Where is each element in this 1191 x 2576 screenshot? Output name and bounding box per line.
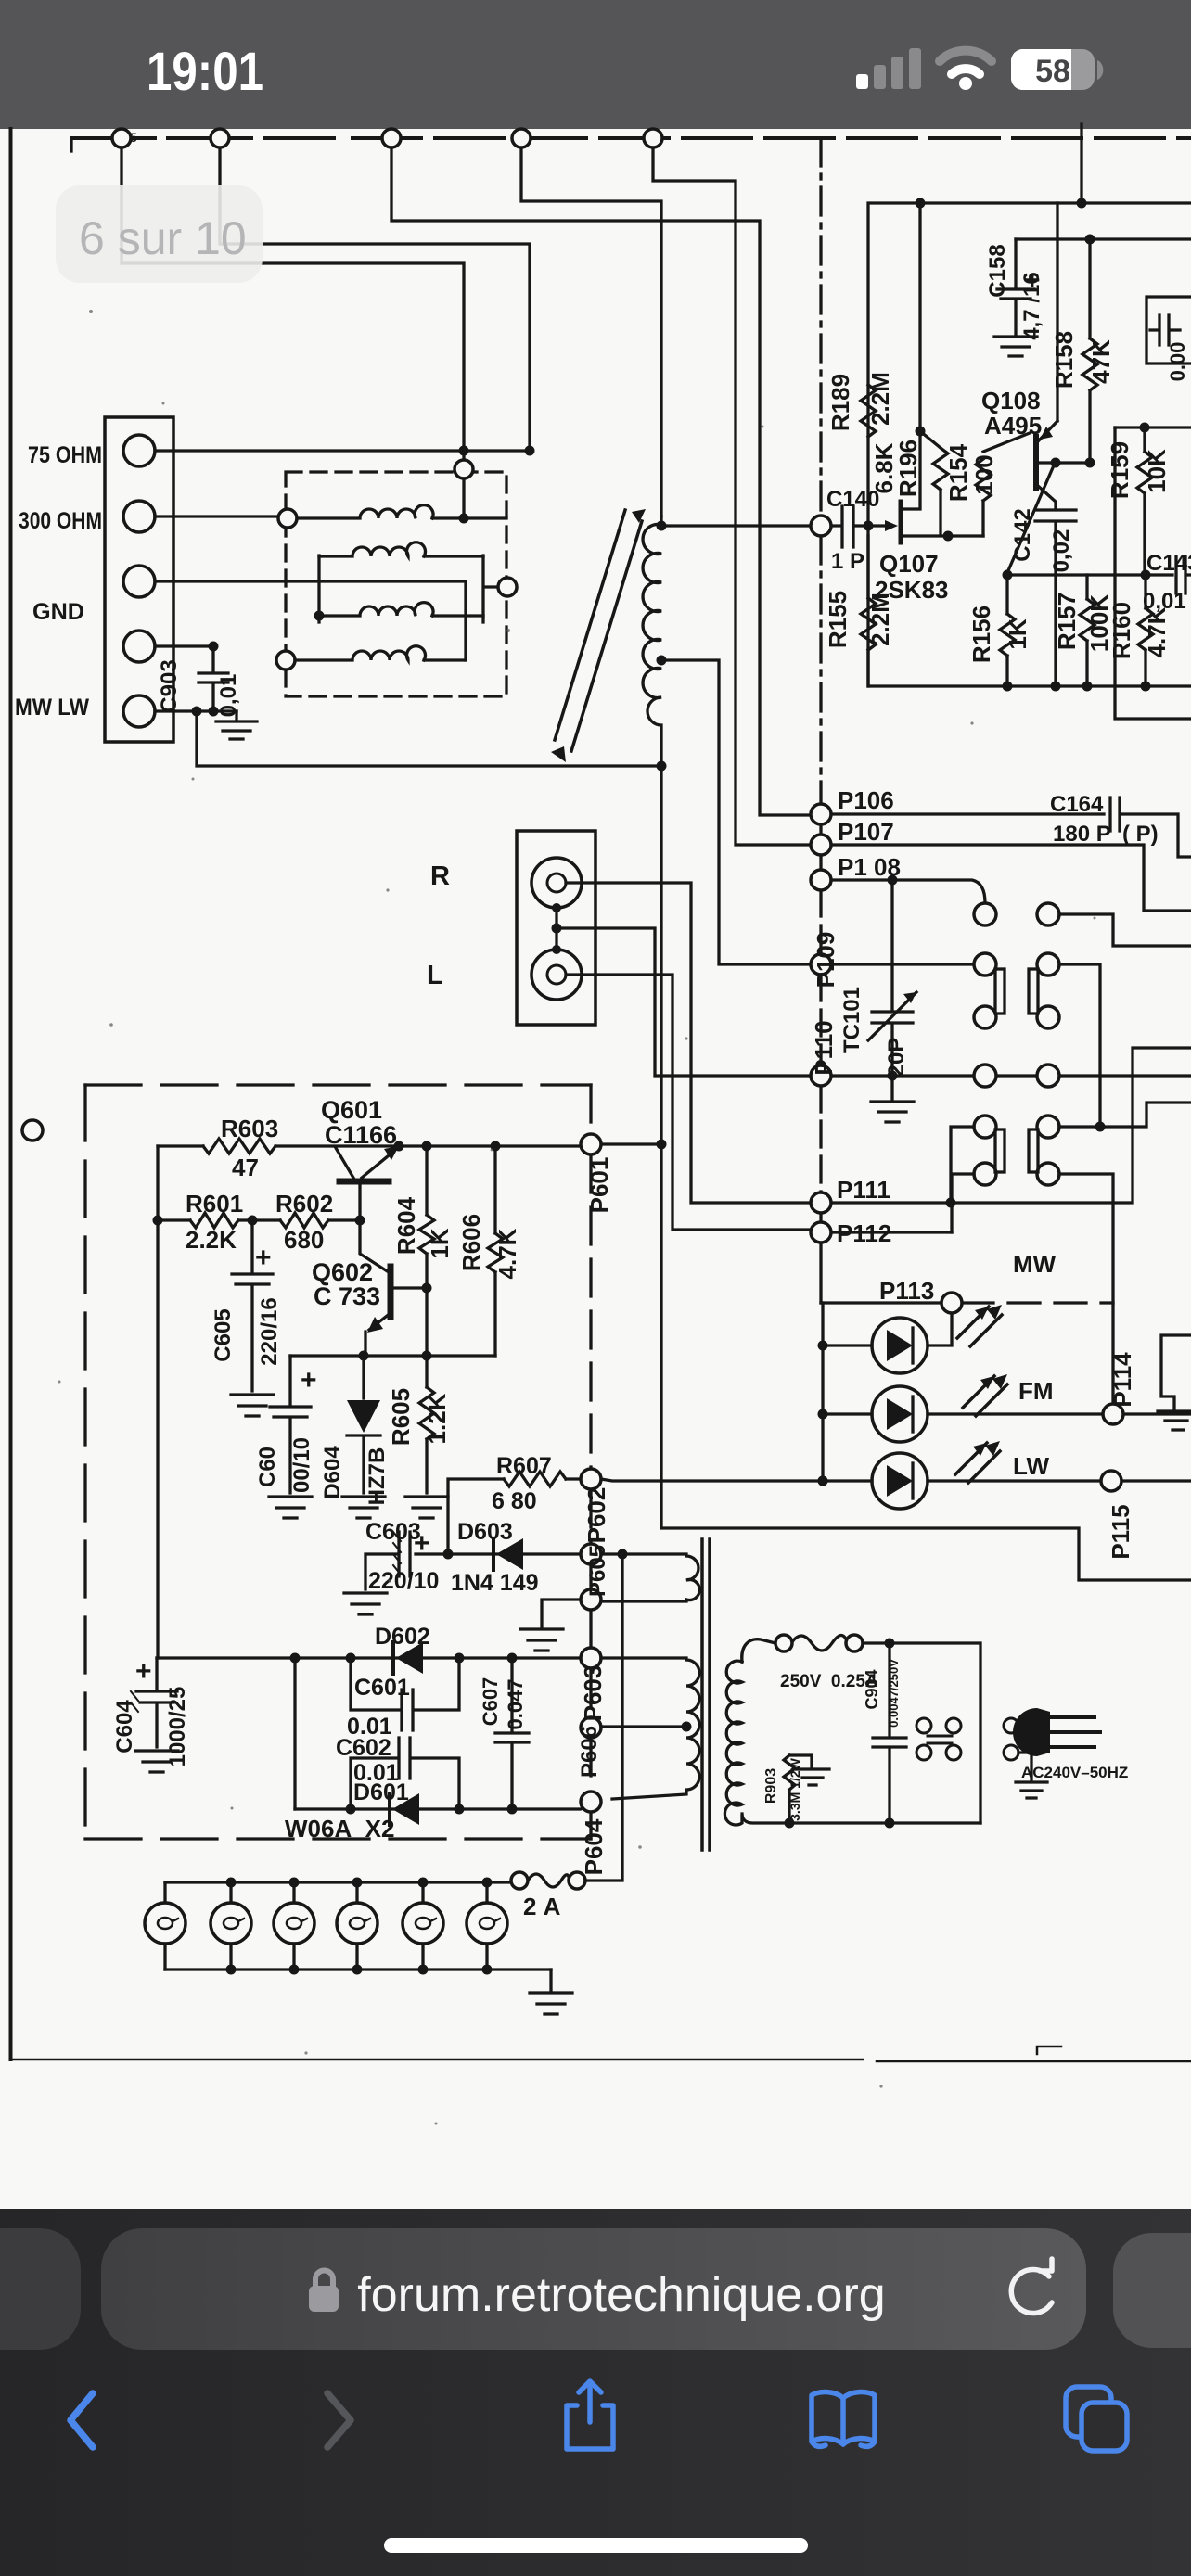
svg-text:220/16: 220/16 [257, 1297, 282, 1365]
left border connector [22, 1120, 43, 1141]
P circles on chassis [811, 804, 1123, 1491]
svg-text:R160: R160 [1108, 602, 1135, 659]
svg-text:D601: D601 [353, 1779, 409, 1805]
C603 [365, 1532, 448, 1589]
line y620 with C143 [1006, 556, 1191, 593]
coil L1 [297, 505, 506, 518]
P106 line + C164 [831, 797, 1191, 857]
svg-text:1N4 149: 1N4 149 [451, 1570, 539, 1596]
svg-text:4,7 /16: 4,7 /16 [1019, 272, 1044, 339]
svg-text:R154: R154 [944, 443, 972, 502]
R160 4.7K [1138, 575, 1153, 686]
svg-text:+: + [255, 1243, 272, 1273]
svg-text:47K: 47K [1087, 339, 1115, 384]
svg-text:P109: P109 [812, 932, 839, 988]
svg-text:+: + [414, 1528, 430, 1559]
P60x circles right edge [581, 1134, 601, 1812]
R189 2.2M [861, 385, 876, 437]
Q602 [360, 1220, 389, 1272]
coil top wire to C140 [661, 524, 812, 527]
C604 1000/25 [136, 1658, 177, 1747]
svg-text:MW: MW [1013, 1250, 1057, 1278]
svg-text:P603: P603 [579, 1665, 607, 1722]
svg-text:C60: C60 [255, 1447, 280, 1487]
variable core arrows [555, 510, 642, 751]
TC101 [872, 880, 913, 1076]
svg-text:R159: R159 [1106, 441, 1133, 499]
svg-text:C603: C603 [365, 1519, 421, 1545]
R155 2.2M [861, 536, 876, 686]
share icon [567, 2381, 613, 2449]
svg-text:R602: R602 [275, 1190, 333, 1218]
svg-text:00/10: 00/10 [289, 1437, 314, 1493]
coil tap to P109 [661, 660, 811, 964]
svg-text:C607: C607 [479, 1677, 502, 1727]
svg-text:R601: R601 [186, 1190, 243, 1218]
svg-text:R: R [430, 861, 450, 891]
C602 ladder [351, 1738, 459, 1809]
svg-text:R156: R156 [967, 606, 995, 663]
svg-text:R189: R189 [826, 374, 854, 431]
coil L3 [319, 603, 483, 616]
svg-text:1K: 1K [1004, 618, 1031, 649]
lock icon [315, 2271, 333, 2288]
left rail [156, 1146, 159, 1658]
svg-text:TC101: TC101 [839, 987, 864, 1053]
svg-text:R158: R158 [1050, 331, 1078, 389]
P107 line [831, 845, 1191, 911]
svg-text:R196: R196 [894, 440, 922, 497]
svg-text:MW LW: MW LW [15, 695, 89, 721]
svg-text:P606: P606 [577, 1726, 602, 1778]
svg-text:2.2M: 2.2M [866, 593, 894, 646]
svg-text:1K: 1K [426, 1228, 454, 1258]
svg-text:+: + [135, 1656, 152, 1687]
svg-text:1.2K: 1.2K [423, 1393, 451, 1444]
page bottom edge [10, 2060, 1191, 2061]
emission arrows MW [957, 1307, 1002, 1346]
C140 coupling cap [830, 506, 868, 547]
R154 100 [976, 433, 1030, 536]
svg-text:R903: R903 [763, 1768, 779, 1804]
svg-text:6 80: 6 80 [492, 1488, 537, 1514]
core [702, 1539, 710, 1850]
R159 10K [1137, 427, 1152, 575]
svg-text:FM: FM [1018, 1377, 1054, 1405]
bus junction circles [112, 129, 662, 147]
tick above FM box [1080, 124, 1082, 203]
svg-text:W06A X2: W06A X2 [285, 1815, 395, 1843]
svg-text:R155: R155 [824, 591, 852, 648]
C605 [232, 1220, 273, 1391]
emission arrows FM [963, 1376, 1007, 1416]
junction dots left section [192, 446, 535, 717]
svg-text:forum.retrotechnique.org: forum.retrotechnique.org [357, 2268, 885, 2322]
top bus dashed [70, 138, 72, 151]
switch lower group [974, 1116, 1059, 1185]
svg-text:220/10: 220/10 [368, 1568, 439, 1594]
R158 47K [1082, 239, 1097, 464]
svg-text:C601: C601 [354, 1675, 410, 1701]
BALUN coil box dashed [286, 472, 506, 696]
svg-text:C605: C605 [211, 1308, 236, 1361]
6 sur 10 overlay [56, 185, 263, 283]
Q601 [339, 1179, 389, 1185]
svg-text:0.047: 0.047 [504, 1678, 527, 1729]
svg-text:6 sur 10: 6 sur 10 [79, 212, 247, 264]
C606 100/10 [270, 1356, 311, 1493]
svg-text:P601: P601 [585, 1157, 613, 1214]
FM box dots [657, 198, 1151, 1150]
coil L2 [319, 542, 483, 556]
svg-text:Q601: Q601 [321, 1096, 382, 1124]
svg-text:R157: R157 [1053, 593, 1081, 650]
svg-text:P112: P112 [837, 1219, 891, 1247]
svg-text:Q108: Q108 [981, 387, 1041, 414]
svg-text:R605: R605 [387, 1388, 415, 1446]
svg-text:P111: P111 [837, 1176, 890, 1204]
svg-text:680: 680 [284, 1226, 324, 1254]
stub to balun connector [462, 451, 465, 460]
svg-text:C143: C143 [1146, 551, 1191, 576]
tabs icon [1066, 2387, 1127, 2451]
fuse 250V [791, 1635, 847, 1651]
ground near plug [1016, 1782, 1047, 1798]
inner rails [319, 555, 497, 622]
P-ground circle row [520, 1600, 581, 1651]
svg-text:P115: P115 [1107, 1504, 1134, 1559]
Q107 FET [868, 524, 885, 527]
svg-text:0,02: 0,02 [1049, 529, 1074, 573]
P109 line [831, 963, 974, 965]
svg-text:300 OHM: 300 OHM [19, 508, 102, 534]
nav icons [70, 2393, 351, 2447]
book icon [812, 2392, 875, 2447]
R601 [158, 1213, 280, 1228]
reload icon [1011, 2259, 1052, 2314]
svg-text:D602: D602 [375, 1624, 430, 1650]
svg-text:20P: 20P [884, 1038, 909, 1078]
C158 4,7/16 [997, 239, 1034, 335]
svg-text:R604: R604 [392, 1196, 420, 1255]
supply line y258 [1016, 237, 1191, 240]
R157 100K [1080, 575, 1095, 686]
STATUS BAR [0, 0, 1191, 129]
ground near C903 [216, 711, 257, 739]
line 1788 [157, 1656, 581, 1659]
FM antenna coil [643, 516, 661, 766]
svg-text:R606: R606 [457, 1214, 485, 1271]
svg-text:47: 47 [232, 1154, 259, 1181]
signal bars [856, 48, 921, 89]
R606 [488, 1146, 503, 1356]
svg-text:P602: P602 [583, 1487, 610, 1544]
R156 1K [1000, 575, 1015, 686]
TRANSFORMER secondaries [601, 1554, 699, 1601]
svg-text:1000/25: 1000/25 [165, 1687, 190, 1767]
svg-text:2.2K: 2.2K [186, 1226, 237, 1254]
P108 line to switch [831, 880, 985, 903]
coil L4 [295, 646, 466, 660]
svg-text:P605: P605 [585, 1545, 610, 1597]
svg-text:C904: C904 [863, 1669, 881, 1709]
BOTTOM TOOLBAR [0, 2209, 1191, 2576]
svg-text:+: + [301, 1365, 317, 1396]
POWER SUPPLY dashed box [85, 1083, 591, 1086]
small box top right [1146, 297, 1191, 363]
wifi [940, 51, 992, 90]
C601 ladder [351, 1658, 459, 1730]
P111 line [831, 1048, 1191, 1203]
C607 [495, 1658, 529, 1809]
svg-text:C602: C602 [336, 1735, 391, 1761]
wire B from bus circle 237 [220, 138, 530, 451]
svg-text:4.7K: 4.7K [493, 1228, 521, 1279]
terminal wires [155, 449, 530, 452]
svg-text:D603: D603 [457, 1519, 513, 1545]
svg-text:C142: C142 [1010, 508, 1035, 561]
R604 [419, 1146, 434, 1288]
svg-text:19:01: 19:01 [147, 42, 263, 102]
svg-text:( P): ( P) [1122, 822, 1159, 847]
svg-text:C158: C158 [985, 244, 1010, 297]
LED feed rail [821, 1303, 824, 1481]
power switch contacts [916, 1718, 961, 1760]
svg-text:3.3M 1/2W: 3.3M 1/2W [788, 1757, 802, 1820]
P601 stub to vertical [601, 1142, 661, 1145]
D604 zener [362, 1356, 365, 1398]
D602 [391, 1642, 395, 1674]
battery [1011, 49, 1103, 90]
svg-text:A495: A495 [984, 412, 1042, 440]
svg-text:P106: P106 [838, 786, 894, 814]
svg-text:C1166: C1166 [325, 1121, 397, 1149]
svg-text:2 A: 2 A [523, 1893, 561, 1920]
wire A from bus circle 131 [122, 138, 464, 451]
svg-text:P1 08: P1 08 [838, 853, 901, 881]
FM TUNER BOX [868, 203, 1191, 686]
dots regulator [153, 1141, 501, 1361]
D601 [388, 1793, 391, 1825]
P110 line [831, 1074, 1191, 1077]
svg-text:P114: P114 [1108, 1352, 1136, 1408]
2A fuse [528, 1874, 569, 1887]
svg-text:P113: P113 [879, 1277, 934, 1305]
svg-text:Q107: Q107 [879, 550, 939, 578]
svg-text:HZ7B: HZ7B [365, 1447, 390, 1506]
svg-text:P107: P107 [838, 818, 894, 846]
FM LED [872, 1386, 928, 1442]
P112 line [831, 1231, 952, 1233]
svg-text:100: 100 [970, 454, 998, 494]
svg-text:P604: P604 [580, 1818, 608, 1875]
svg-text:AC240V–50HZ: AC240V–50HZ [1021, 1764, 1128, 1781]
primary bottom [742, 1814, 980, 1823]
P113 row [821, 1301, 941, 1304]
page left border [9, 129, 13, 2060]
emission arrows LW [955, 1443, 1000, 1483]
coil bottom long route [661, 766, 1191, 1580]
R903 [784, 1755, 812, 1823]
P114/P115 continuations [1122, 1414, 1191, 1481]
RCA JACKS [517, 831, 595, 1025]
svg-text:R603: R603 [221, 1115, 278, 1142]
svg-text:GND: GND [32, 599, 84, 625]
svg-text:C 733: C 733 [314, 1282, 380, 1310]
R196 6.8K [920, 431, 948, 534]
svg-text:R607: R607 [496, 1453, 552, 1479]
svg-text:1 P: 1 P [831, 549, 864, 574]
plug side contacts [1004, 1718, 1018, 1760]
R605 [419, 1288, 434, 1493]
D603 line [448, 1552, 581, 1555]
svg-text:58: 58 [1035, 54, 1070, 89]
AC plug [1013, 1708, 1050, 1756]
R602 [280, 1213, 360, 1228]
svg-text:P110: P110 [810, 1020, 838, 1075]
C142 [1035, 510, 1076, 686]
svg-text:C164: C164 [1050, 792, 1104, 817]
svg-text:L: L [427, 961, 443, 990]
primary coil [724, 1661, 742, 1825]
LW supply from P602 [601, 1479, 823, 1481]
balun connector circles [276, 460, 517, 670]
left rail x318 [293, 1658, 296, 1809]
svg-text:180 P: 180 P [1053, 822, 1111, 847]
wire from bus circle 562 to FM coil top [521, 138, 661, 516]
dots power [785, 1639, 895, 1829]
svg-text:C903: C903 [157, 659, 182, 712]
svg-text:75 OHM: 75 OHM [28, 442, 102, 468]
svg-text:4.7K: 4.7K [1143, 606, 1171, 657]
home indicator [384, 2538, 808, 2553]
line 1462 [290, 1354, 495, 1357]
LW LED [872, 1453, 928, 1509]
svg-text:0.00: 0.00 [1166, 342, 1189, 382]
ANTENNA terminal block [105, 417, 173, 742]
right connector box [1158, 1335, 1191, 1430]
Q108 PNP [1033, 437, 1039, 489]
C904 [873, 1643, 906, 1823]
svg-text:0.0047/250V: 0.0047/250V [887, 1659, 901, 1728]
CHASSIS dashed vertical [819, 138, 822, 516]
MW LED [872, 1318, 928, 1373]
R607 line / P602 [448, 1472, 581, 1554]
svg-text:D604: D604 [320, 1446, 345, 1499]
line 1951 to P604 [295, 1805, 591, 1809]
svg-text:0,01: 0,01 [216, 674, 241, 718]
svg-text:10K: 10K [1143, 449, 1171, 493]
wire from bus circle 704 to P107 [653, 138, 811, 845]
svg-text:LW: LW [1013, 1452, 1049, 1480]
wire C from bus circle 422 to P106 [391, 138, 811, 815]
svg-text:C604: C604 [112, 1700, 137, 1753]
LAMPS [145, 1903, 507, 1944]
capacitor C903 [198, 646, 228, 711]
rail 1236 [158, 1139, 581, 1154]
svg-text:2.2M: 2.2M [866, 372, 894, 426]
switch upper group [974, 903, 1059, 1087]
